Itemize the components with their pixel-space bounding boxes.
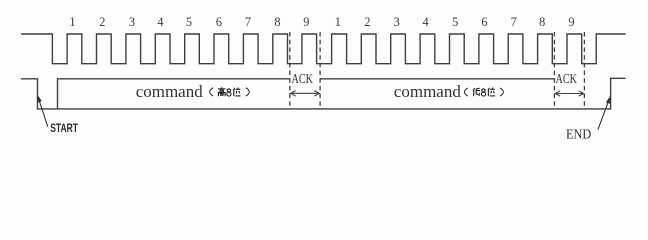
svg-text:7: 7 — [511, 15, 517, 29]
hanzi GAO 高 — [218, 87, 226, 96]
svg-text:ACK: ACK — [292, 70, 314, 86]
hanzi WEI 位 — [233, 87, 240, 96]
svg-text:9: 9 — [303, 15, 309, 29]
dashed line ACK2 left — [553, 32, 555, 109]
paren open (fullwidth) box 1 — [210, 88, 213, 96]
data line SDA: initial high, START fall, bottom rail, END rise — [21, 78, 626, 109]
svg-text:command: command — [394, 82, 462, 101]
digit 8 box 2 — [481, 89, 485, 96]
svg-text:4: 4 — [157, 15, 163, 29]
svg-text:6: 6 — [481, 15, 487, 29]
svg-text:1: 1 — [335, 15, 341, 29]
svg-text:7: 7 — [245, 15, 251, 29]
svg-text:6: 6 — [216, 15, 222, 29]
svg-text:command: command — [136, 82, 204, 101]
svg-text:8: 8 — [539, 15, 545, 29]
svg-text:3: 3 — [394, 15, 400, 29]
svg-text:5: 5 — [452, 15, 458, 29]
clock pulse numbers group 2 — [335, 15, 575, 29]
paren close (fullwidth) box 1 — [246, 88, 249, 96]
svg-text:2: 2 — [364, 15, 370, 29]
command box 1 (high 8 bits): left edge and top — [58, 79, 290, 109]
END arrow — [598, 99, 609, 130]
svg-text:END: END — [566, 126, 591, 142]
svg-text:9: 9 — [568, 15, 574, 29]
svg-text:ACK: ACK — [556, 70, 578, 86]
clock pulse numbers group 1 — [69, 15, 309, 29]
svg-text:2: 2 — [99, 15, 105, 29]
paren close (fullwidth) box 2 — [500, 88, 503, 96]
svg-text:8: 8 — [274, 15, 280, 29]
paren open (fullwidth) box 2 — [464, 88, 467, 96]
clock signal SCL waveform — [21, 34, 626, 64]
svg-text:1: 1 — [69, 15, 75, 29]
hanzi DI 低 — [473, 88, 480, 96]
dashed line ACK2 right — [583, 32, 585, 109]
ACK double arrow 1 — [291, 91, 320, 96]
command box 2 (low 8 bits): top line — [320, 78, 554, 80]
ACK double arrow 2 — [555, 91, 584, 96]
digit 8 box 1 — [227, 89, 231, 96]
svg-text:5: 5 — [186, 15, 192, 29]
dashed line ACK1 right — [319, 32, 321, 109]
svg-text:4: 4 — [423, 15, 429, 29]
START arrow — [38, 98, 48, 127]
hanzi WEI 位 (second) — [488, 87, 495, 96]
svg-text:3: 3 — [129, 15, 135, 29]
dashed line ACK1 left — [289, 32, 291, 109]
svg-text:START: START — [50, 123, 78, 136]
